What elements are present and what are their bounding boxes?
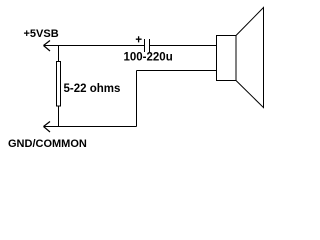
capacitor C1 plus polarity mark [136, 36, 142, 42]
wire resistor bottom to ground rail [58, 106, 60, 127]
speaker LS1 cone [236, 8, 264, 108]
wire bottom ground rail [44, 126, 137, 128]
wire top right (capacitor to speaker) [150, 45, 217, 47]
wire top left (+5VSB to capacitor) [44, 45, 145, 47]
svg-text:5-22 ohms: 5-22 ohms [64, 83, 121, 95]
wire junction branch down to resistor [58, 46, 60, 62]
svg-text:100-220u: 100-220u [124, 52, 173, 64]
svg-text:GND/COMMON: GND/COMMON [8, 138, 87, 150]
capacitor C1 plates [145, 39, 150, 52]
arrow GND/COMMON [44, 122, 51, 133]
speaker LS1 driver body [217, 36, 237, 81]
wire riser up from ground rail [136, 71, 138, 127]
arrow +5VSB [44, 41, 51, 52]
wire mid horizontal to speaker lower terminal [137, 70, 217, 72]
svg-text:+5VSB: +5VSB [24, 28, 59, 40]
resistor R1 body [57, 62, 61, 107]
